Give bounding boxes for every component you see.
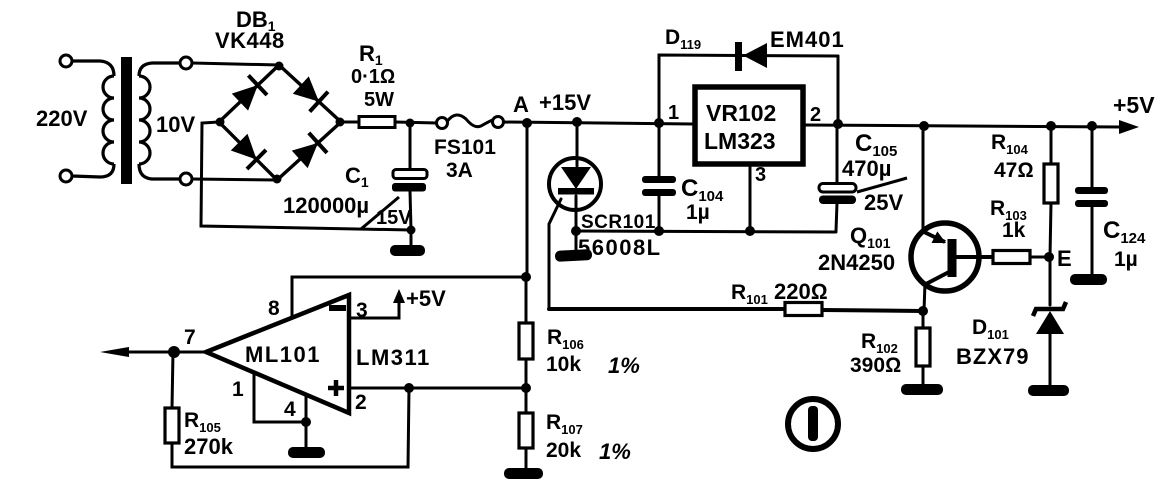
transformer T1 core	[121, 57, 132, 184]
svg-text:1: 1	[668, 102, 679, 124]
svg-text:270k: 270k	[184, 434, 234, 459]
wire SCR gate	[549, 199, 561, 309]
resistor R107	[519, 413, 533, 448]
svg-text:VR102: VR102	[706, 100, 776, 126]
ground below R102	[901, 384, 943, 395]
C105 polarity stroke	[857, 178, 907, 192]
svg-text:LM311: LM311	[356, 345, 431, 370]
ground below SCR101	[555, 249, 593, 262]
svg-text:BZX79: BZX79	[956, 344, 1029, 369]
wire R104 bottom to node E	[1050, 203, 1051, 257]
resistor R101	[785, 303, 822, 316]
wire node A down to comparator supply	[526, 123, 529, 277]
wire SCR anode	[576, 122, 579, 166]
wire Q101 collector lead	[924, 283, 925, 311]
bridge DB1 diode bottom-left	[232, 135, 266, 169]
svg-text:56008L: 56008L	[578, 235, 662, 260]
wire opamp pin2 input	[349, 387, 526, 390]
svg-text:10k: 10k	[546, 353, 581, 376]
svg-text:10V: 10V	[156, 112, 195, 137]
wire node E to zener D101	[1049, 257, 1052, 305]
svg-text:FS101: FS101	[434, 136, 496, 159]
wire output bus from VR102 pin2	[805, 125, 1122, 127]
wire opamp pin3 to +5V arrow	[349, 296, 399, 318]
transformer T1 primary winding	[72, 61, 114, 177]
wire C1 bottom lead	[410, 191, 411, 246]
wire D119 right leg	[837, 56, 840, 125]
svg-text:1%: 1%	[599, 439, 631, 464]
svg-text:7: 7	[184, 326, 196, 349]
thyristor SCR101	[549, 158, 601, 210]
node C1 bottom	[407, 226, 416, 235]
svg-text:2: 2	[810, 104, 821, 126]
svg-text:390Ω: 390Ω	[850, 354, 901, 377]
wire fuse to node A bus	[503, 122, 693, 124]
resistor R105	[165, 408, 179, 443]
svg-text:1µ: 1µ	[686, 201, 710, 224]
svg-text:3A: 3A	[446, 159, 473, 182]
wire A-branch down to R106	[525, 277, 528, 323]
wire R103 to node E	[1030, 256, 1049, 259]
wire bridge left vertex to bottom rail	[201, 122, 411, 230]
node R104 top on bus	[1046, 121, 1056, 131]
wire R101 line gate to collector	[549, 307, 785, 311]
capacitor C104	[642, 176, 676, 196]
node divider junction	[521, 383, 531, 393]
node pin2 feedback junction	[404, 383, 414, 393]
wire C1 top lead	[409, 123, 412, 170]
wire R1 to fuse	[395, 122, 437, 123]
svg-text:0·1Ω: 0·1Ω	[351, 66, 395, 88]
capacitor C1	[392, 170, 427, 192]
svg-text:+5V: +5V	[406, 286, 446, 311]
node pin8 supply junction	[521, 272, 531, 282]
wire secondary bottom to bridge	[192, 179, 277, 180]
wire D101 to ground	[1049, 334, 1052, 386]
svg-text:15V: 15V	[376, 207, 412, 229]
node bridge right	[336, 118, 345, 127]
circled 1 figure mark	[788, 399, 838, 449]
ground below C124	[1070, 274, 1107, 285]
node bridge left	[216, 118, 225, 127]
wire R107 to ground	[525, 448, 528, 468]
wire R102 top lead	[922, 311, 925, 328]
node C104 bottom	[654, 226, 664, 236]
svg-text:A: A	[513, 92, 529, 117]
svg-text:5W: 5W	[364, 89, 394, 111]
opamp output arrow pin7	[100, 347, 129, 357]
node R1 output	[406, 119, 415, 128]
transformer T1 primary terminal bottom	[60, 170, 72, 182]
wire D119 left leg	[659, 55, 838, 124]
svg-text:25V: 25V	[864, 190, 903, 215]
resistor R102	[916, 328, 930, 366]
svg-text:+5V: +5V	[1113, 92, 1155, 118]
ground below R107	[504, 468, 543, 479]
wire C104 top lead	[658, 123, 661, 177]
wire opamp pin4 ground branch	[305, 394, 308, 447]
node E dot	[1044, 252, 1054, 262]
wire SCR cathode to node	[575, 196, 578, 250]
wire opamp pin7 output	[116, 351, 206, 354]
wire pin8 supply branch	[292, 277, 527, 318]
regulator VR102	[695, 87, 803, 164]
bridge DB1 diode top-left	[233, 75, 267, 109]
wire R101 to Q101 collector junction	[822, 310, 923, 311]
wire R102 bottom lead	[922, 366, 925, 385]
svg-text:47Ω: 47Ω	[994, 159, 1034, 182]
wire bridge right vertex to R1	[341, 121, 359, 124]
svg-text:+15V: +15V	[539, 90, 591, 115]
svg-text:1k: 1k	[1002, 219, 1026, 242]
node pin4 ground junction	[301, 417, 311, 427]
node bridge top	[275, 62, 284, 71]
svg-text:1µ: 1µ	[1114, 248, 1138, 271]
wire C104 bottom lead	[658, 196, 661, 231]
svg-text:E: E	[1057, 246, 1072, 271]
ground below opamp	[288, 447, 325, 458]
transformer T1 secondary winding	[139, 63, 180, 179]
node bridge bottom	[273, 175, 282, 184]
svg-text:470µ: 470µ	[842, 156, 891, 181]
wire secondary top to bridge	[192, 63, 279, 65]
wire C105 bottom lead	[836, 203, 837, 231]
opamp minus sign	[329, 305, 346, 311]
capacitor C105	[819, 184, 856, 205]
wire Q101 emitter lead	[922, 126, 925, 232]
node pin7 junction	[168, 346, 180, 358]
svg-text:EM401: EM401	[770, 27, 845, 52]
wire R106 to R107	[525, 359, 528, 413]
wire R105 top lead	[172, 352, 173, 408]
svg-text:SCR101: SCR101	[581, 212, 656, 233]
wire R105 bottom and feedback loop	[172, 388, 409, 467]
diode D119	[735, 42, 767, 71]
C1 polarity stroke	[361, 197, 399, 229]
wire R104 top lead	[1050, 126, 1053, 164]
transformer T1 primary terminal top	[60, 55, 72, 67]
svg-text:1%: 1%	[608, 353, 640, 378]
zener diode D101	[1033, 302, 1066, 334]
opamp plus sign	[328, 380, 344, 396]
node C124 top on bus	[1087, 121, 1097, 131]
svg-text:2: 2	[355, 391, 367, 414]
bridge rectifier DB1	[219, 65, 341, 180]
node SCR branch dot	[572, 117, 582, 127]
node pin3 junction	[745, 226, 755, 236]
ground below D101	[1028, 385, 1069, 396]
node D119 right on bus	[833, 119, 843, 129]
transformer T1 secondary terminal top	[180, 57, 192, 69]
fuse FS101	[437, 115, 504, 129]
wire C124 top lead	[1091, 126, 1094, 187]
ground below C1	[390, 245, 425, 256]
resistor R106	[519, 323, 533, 359]
wire Q101 base to R103	[956, 255, 993, 259]
wire C124 bottom lead	[1091, 207, 1094, 276]
resistor R104	[1044, 164, 1058, 203]
wire cathode bus y231	[576, 231, 836, 232]
resistor R103	[993, 251, 1030, 264]
wire C105 top lead	[836, 124, 839, 184]
wire opamp pin1 ground branch	[254, 373, 306, 422]
svg-text:VK448: VK448	[215, 28, 285, 53]
node D119 left on bus	[654, 118, 664, 128]
svg-text:220V: 220V	[36, 106, 88, 131]
wire VR102 pin3	[749, 166, 752, 231]
op-amp U1 ML101 triangle	[206, 295, 349, 413]
svg-text:3: 3	[356, 299, 368, 322]
node Q101 emitter on bus	[919, 121, 929, 131]
svg-text:4: 4	[284, 398, 296, 421]
svg-text:2N4250: 2N4250	[818, 250, 895, 275]
node A dot	[522, 118, 532, 128]
svg-text:R101 220Ω: R101 220Ω	[731, 279, 828, 307]
+5V output arrow	[1119, 120, 1139, 134]
bridge DB1 diode bottom-right	[293, 133, 327, 167]
capacitor C124	[1075, 187, 1108, 207]
node SCR cathode	[571, 226, 581, 236]
svg-text:8: 8	[268, 297, 280, 320]
resistor R1	[359, 117, 395, 128]
+5V reference arrow at pin3	[393, 289, 405, 303]
svg-text:3: 3	[755, 164, 766, 186]
svg-text:LM323: LM323	[704, 128, 776, 154]
svg-text:ML101: ML101	[245, 342, 321, 367]
svg-text:1: 1	[232, 378, 244, 401]
bridge DB1 diode top-right	[294, 77, 328, 111]
transformer T1 secondary terminal bottom	[180, 173, 192, 185]
svg-text:120000µ: 120000µ	[283, 193, 369, 218]
transistor Q101	[911, 223, 979, 291]
node Q101 collector junction	[918, 306, 928, 316]
svg-text:20k: 20k	[546, 439, 581, 462]
